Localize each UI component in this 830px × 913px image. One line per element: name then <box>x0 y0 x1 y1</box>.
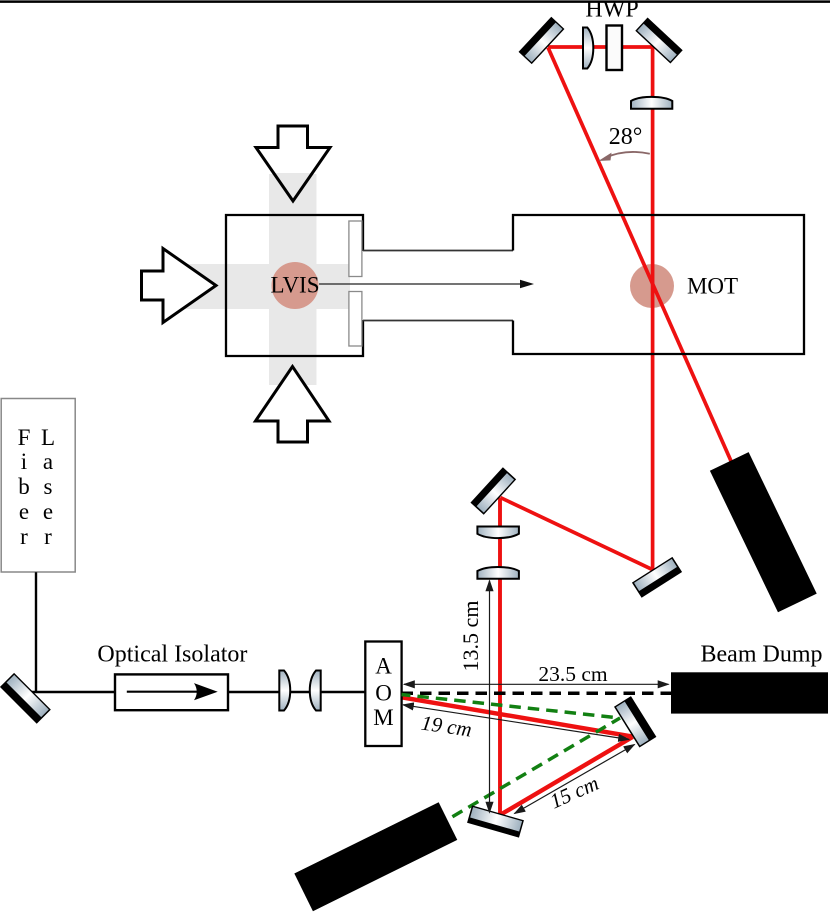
mirror M2 (under MOT) <box>632 557 682 598</box>
svg-text:19 cm: 19 cm <box>420 711 474 742</box>
green dashed beam AOM to right mirror <box>402 695 621 719</box>
svg-text:MOT: MOT <box>687 274 738 299</box>
AOM label <box>373 654 393 731</box>
black dashed zero-order beam <box>402 692 672 696</box>
tube wall top <box>363 250 514 252</box>
lens below top-right mirror <box>631 97 672 109</box>
svg-text:F: F <box>18 425 31 450</box>
measurement line 15 cm <box>515 745 635 814</box>
red beam: mirror M2 to mirror M_C <box>500 498 652 570</box>
measurement line 23.5 cm <box>404 683 669 685</box>
svg-text:A: A <box>375 654 392 679</box>
red beam: horizontal top between mirrors through HWP <box>548 45 653 49</box>
svg-text:HWP: HWP <box>585 0 638 23</box>
MOT atom cloud circle <box>630 264 674 308</box>
svg-text:e: e <box>19 499 29 524</box>
svg-text:r: r <box>44 524 52 549</box>
AOM box <box>365 642 401 747</box>
svg-text:15 cm: 15 cm <box>546 771 602 814</box>
svg-text:a: a <box>43 449 53 474</box>
bottom mirror M3 <box>467 805 524 837</box>
mirror top-left <box>519 17 565 64</box>
telescope lens B <box>477 567 519 579</box>
tube wall bottom <box>363 320 514 322</box>
svg-text:28°: 28° <box>609 124 643 150</box>
LVIS vertical gray beam band <box>269 174 317 385</box>
mirror M_C (middle left) <box>470 467 516 515</box>
svg-text:M: M <box>373 705 393 730</box>
svg-text:e: e <box>43 499 53 524</box>
svg-text:Optical Isolator: Optical Isolator <box>97 642 247 668</box>
28 degree arc arrow <box>605 152 650 158</box>
svg-text:LVIS: LVIS <box>271 273 320 298</box>
input mirror <box>0 673 51 724</box>
half-wave plate HWP <box>607 26 623 71</box>
red beam: diagonal MOT beam from top-left mirror to beam dump <box>548 48 731 462</box>
svg-text:O: O <box>375 681 392 706</box>
beam dump bottom left <box>294 802 457 911</box>
green dashed beam right mirror to beam dump <box>446 718 620 821</box>
lens 1 before AOM <box>279 671 290 711</box>
MOT chamber fill <box>513 215 804 354</box>
LVIS horizontal gray beam band <box>170 264 350 309</box>
MOT chamber outline <box>513 215 804 354</box>
right mirror M_right <box>614 696 656 747</box>
svg-text:L: L <box>41 425 55 450</box>
big arrow bottom (pointing up) <box>256 367 330 443</box>
wire mirror to isolator <box>30 691 116 693</box>
beam dump top right <box>710 452 817 612</box>
big arrow left (pointing right) <box>142 249 217 323</box>
red beam: right mirror to AOM <box>402 697 633 736</box>
svg-text:s: s <box>44 474 53 499</box>
slit aperture upper <box>349 221 362 277</box>
wire from fiber laser down <box>35 572 37 692</box>
svg-text:13.5 cm: 13.5 cm <box>458 601 483 672</box>
svg-text:b: b <box>18 474 30 499</box>
svg-text:r: r <box>20 524 28 549</box>
red beam: bottom mirror to right mirror <box>501 737 633 815</box>
LVIS atom cloud circle <box>272 262 319 309</box>
measurement line 13.5 cm <box>489 581 491 813</box>
lens before HWP <box>583 28 593 69</box>
svg-text:i: i <box>21 449 27 474</box>
isolator arrow <box>127 691 200 693</box>
beam dump right box <box>671 672 828 713</box>
slit aperture lower <box>349 292 362 347</box>
red beam: vertical through telescope lenses <box>498 498 502 815</box>
wire isolator to lens pair to AOM <box>227 691 365 693</box>
atomic beam arrow LVIS to MOT <box>319 283 521 285</box>
top border line <box>0 0 830 3</box>
measurement line 19 cm <box>403 705 629 740</box>
mirror top-right <box>635 18 682 64</box>
red beam: vertical MOT beam <box>651 45 655 569</box>
Optical Isolator box <box>115 674 228 710</box>
Fiber Laser label <box>18 425 55 549</box>
svg-text:Beam Dump: Beam Dump <box>701 642 823 668</box>
Fiber Laser box <box>1 399 75 573</box>
svg-text:23.5 cm: 23.5 cm <box>538 662 608 686</box>
telescope lens A <box>477 527 519 539</box>
lens 2 before AOM <box>310 671 321 711</box>
big arrow top (pointing down) <box>256 126 330 201</box>
LVIS chamber box <box>226 215 363 356</box>
